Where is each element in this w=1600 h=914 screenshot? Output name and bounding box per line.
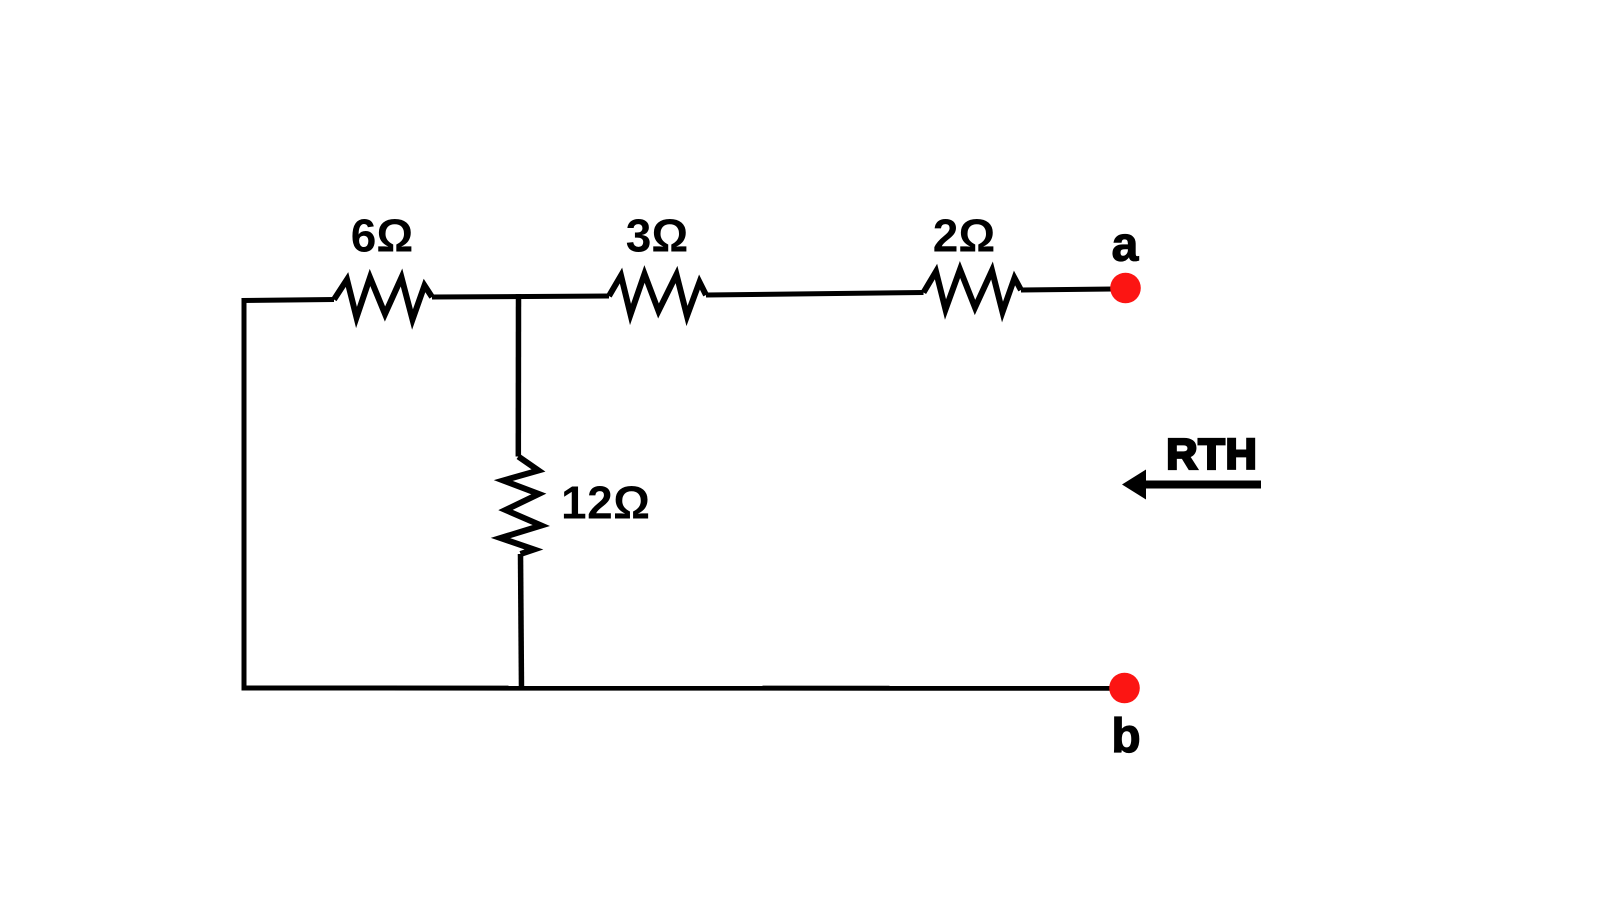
node terminal a red dot [1110,273,1141,304]
wire: from 2-ohm resistor to terminal a [1021,289,1113,290]
svg-text:b: b [1111,710,1140,763]
svg-text:3Ω: 3Ω [626,210,688,262]
resistor R4 12-ohm vertical zigzag [501,457,542,555]
resistor R1 6-ohm zigzag [334,278,432,320]
wire: between 3-ohm and 2-ohm [706,293,924,296]
svg-text:12Ω: 12Ω [561,477,651,529]
svg-text:2Ω: 2Ω [933,210,995,262]
resistor R3 2-ohm zigzag [924,270,1022,313]
arrow RTH pointing left [1122,470,1261,500]
wire: between 6-ohm and 3-ohm through node junction [432,296,609,297]
wire: vertical from top node down to 12-ohm resistor [516,294,522,457]
node terminal b red dot [1109,673,1140,704]
resistor R2 3-ohm zigzag [609,274,706,316]
svg-text:6Ω: 6Ω [351,210,413,262]
svg-text:a: a [1112,219,1139,272]
wire: vertical from 12-ohm resistor down to bottom wire [521,554,522,690]
svg-text:RTH: RTH [1166,431,1257,479]
wire: top-left horizontal from loop corner to 6-ohm resistor [242,300,335,301]
wire: bottom horizontal from loop corner to terminal b [242,686,1114,691]
wire: left vertical side of loop [242,301,247,691]
